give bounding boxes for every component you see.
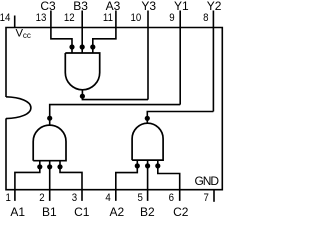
svg-text:Y1: Y1 [174,0,189,13]
svg-text:A3: A3 [106,0,121,13]
svg-text:C3: C3 [40,0,56,13]
svg-text:cc: cc [23,31,31,40]
svg-text:11: 11 [103,12,113,24]
svg-text:GND: GND [195,174,220,188]
svg-text:14: 14 [0,12,11,24]
svg-text:B3: B3 [73,0,88,13]
svg-text:C1: C1 [74,205,90,219]
svg-text:3: 3 [72,193,78,205]
svg-text:5: 5 [138,193,144,205]
svg-text:9: 9 [169,12,175,24]
svg-text:6: 6 [169,193,175,205]
svg-text:10: 10 [130,12,141,24]
svg-text:C2: C2 [173,205,189,219]
svg-text:7: 7 [204,193,210,205]
svg-text:13: 13 [36,12,47,24]
svg-text:2: 2 [39,193,45,205]
svg-text:4: 4 [105,193,111,205]
svg-text:Y3: Y3 [141,0,156,13]
svg-text:12: 12 [64,12,75,24]
svg-text:1: 1 [6,193,12,205]
svg-text:8: 8 [203,12,209,24]
svg-text:A2: A2 [109,205,124,219]
svg-text:B1: B1 [42,205,57,219]
svg-text:Y2: Y2 [207,0,222,13]
svg-text:B2: B2 [140,205,155,219]
svg-text:A1: A1 [10,205,25,219]
